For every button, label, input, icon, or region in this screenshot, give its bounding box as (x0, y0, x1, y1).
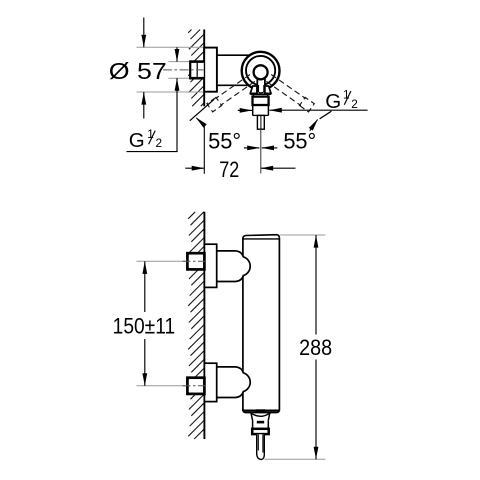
outlet mid section (252, 420, 254, 429)
wall face line (top view) (203, 30, 205, 107)
hose nipple (front view) (257, 434, 265, 459)
ring band (252, 95, 254, 97)
S-union bottom: escutcheon (204, 363, 216, 401)
tiny center arrows (244, 147, 260, 149)
svg-text:1: 1 (343, 87, 350, 101)
extension line 150 bottom (137, 385, 188, 387)
extension line 150 top (137, 260, 188, 262)
valve body inner circle (246, 56, 275, 85)
outlet union nut (thick box) (253, 97, 269, 105)
dashed lever swung left 55deg (207, 75, 255, 112)
svg-text:G: G (325, 90, 341, 113)
svg-text:55°: 55° (208, 129, 241, 154)
dimension line G1/2 inlet (176, 47, 178, 61)
faucet body tube (front view) (243, 235, 280, 413)
wall hatching (bottom view) (188, 212, 204, 439)
dimension 72 (185, 167, 204, 169)
shoulder line (250, 93, 271, 95)
wall hatching (top view) (188, 30, 204, 107)
dimension line 150 (144, 261, 146, 312)
extension line 288 bottom (265, 458, 326, 460)
svg-text:150±11: 150±11 (113, 314, 176, 339)
centerline of inlet nipple (163, 69, 204, 71)
leader left 55deg (203, 126, 205, 174)
outlet collar (251, 413, 253, 421)
extension line dia57 bottom (137, 91, 205, 93)
lever stem (257, 74, 264, 90)
extension line 288 top (280, 234, 325, 236)
lever knob circle (254, 65, 268, 79)
55deg position line left (190, 99, 215, 121)
leader underline G1/2 left (127, 151, 178, 153)
S-union top: wall nut (187, 253, 204, 269)
leader right 55deg (310, 120, 318, 131)
S-union bottom: neck and bulge (217, 367, 251, 398)
arrow to outlet left (238, 109, 252, 111)
55deg position line right (320, 111, 332, 119)
wall face line (bottom view) (203, 212, 205, 439)
leader underline G1/2 right (269, 109, 367, 111)
G1/2 inlet nipple in wall (190, 61, 204, 79)
svg-text:55°: 55° (283, 129, 316, 154)
S-union bottom: wall nut (187, 378, 204, 394)
escutcheon flange (top view) (204, 48, 217, 92)
dashed lever swung right 55deg (266, 75, 314, 112)
svg-text:72: 72 (219, 157, 239, 182)
valve body outer circle (242, 52, 280, 90)
outlet centerline (260, 129, 262, 173)
S-union top: centerline (183, 260, 208, 262)
svg-text:288: 288 (299, 335, 332, 360)
lever stem lower part (258, 85, 264, 92)
S-union bottom: centerline (183, 385, 208, 387)
G1/2 hose nipple (top view) (257, 115, 264, 129)
svg-text:Ø 57: Ø 57 (109, 58, 167, 84)
svg-text:2: 2 (351, 97, 358, 111)
S-union top: neck and bulge (217, 251, 251, 282)
dimension line dia57 (143, 18, 145, 48)
extension line G1/2 nipple bottom (168, 77, 190, 79)
svg-text:1: 1 (147, 127, 154, 141)
yoke wings (250, 86, 257, 93)
extension line G1/2 nipple top (168, 61, 190, 63)
svg-text:2: 2 (156, 136, 163, 150)
faucet body cylinder (top view) (217, 54, 250, 56)
outlet nut band (252, 429, 269, 434)
outlet tube (252, 105, 254, 115)
svg-text:G: G (129, 129, 145, 152)
S-union top: escutcheon (204, 244, 216, 287)
extension line dia57 top (137, 46, 205, 48)
dimension line 288 (315, 235, 317, 335)
